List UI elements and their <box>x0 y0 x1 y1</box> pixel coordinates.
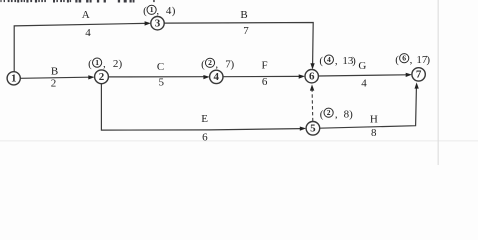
svg-text:5: 5 <box>310 123 316 135</box>
wire 2-4 <box>108 76 204 78</box>
node 7 <box>412 68 425 81</box>
node label (4, 13) at node 6 <box>319 55 356 67</box>
svg-text:H: H <box>370 113 378 125</box>
node label (2, 8) at node 5 <box>320 108 353 120</box>
svg-text:,: , <box>335 55 338 67</box>
svg-text:5: 5 <box>159 77 165 89</box>
svg-text:): ) <box>349 108 353 120</box>
wire 6-7 <box>318 75 406 76</box>
wire 4-6 <box>223 75 300 77</box>
node 2 <box>95 70 109 84</box>
faint table border vertical line right <box>438 0 439 165</box>
svg-text:C: C <box>157 61 164 73</box>
svg-text:G: G <box>358 60 366 72</box>
svg-text:(: ( <box>88 58 92 70</box>
svg-text:B: B <box>240 9 247 21</box>
svg-text:E: E <box>201 113 208 125</box>
arrowhead into node 5 left <box>300 127 306 131</box>
svg-text:): ) <box>172 5 176 17</box>
cut-off text row at top edge <box>0 0 154 3</box>
svg-text:,: , <box>410 54 413 66</box>
svg-text:2: 2 <box>208 58 212 67</box>
svg-text:,: , <box>103 58 106 70</box>
svg-text:(: ( <box>319 55 323 67</box>
svg-text:F: F <box>262 60 268 72</box>
svg-text:1: 1 <box>95 58 99 67</box>
svg-text:(: ( <box>143 5 147 17</box>
svg-text:(: ( <box>201 58 205 70</box>
wire 2-5 (down then right) <box>101 84 300 131</box>
node 1 <box>7 72 20 85</box>
svg-text:4: 4 <box>361 78 367 90</box>
svg-text:1: 1 <box>11 73 17 85</box>
svg-text:): ) <box>426 54 430 66</box>
svg-text:(: ( <box>320 108 324 120</box>
node 3 <box>151 17 164 30</box>
wire 1-3 (up then right) <box>14 23 145 71</box>
wire 3-6 (right then down) <box>164 23 313 65</box>
svg-text:8: 8 <box>371 127 377 139</box>
arrowhead into node 3 <box>145 21 151 25</box>
svg-text:B: B <box>51 65 58 77</box>
node label (6, 17) at node 7 <box>395 54 430 66</box>
svg-text:6: 6 <box>202 131 208 143</box>
arrowhead into node 2 <box>88 75 94 79</box>
svg-text:4: 4 <box>85 27 91 39</box>
arrowhead dummy into node 6 bottom <box>310 84 314 90</box>
wire 1-2 <box>20 77 89 78</box>
arrowhead into node 4 <box>203 75 209 79</box>
svg-text:2: 2 <box>327 108 331 117</box>
svg-text:,: , <box>335 108 338 120</box>
node 4 <box>210 70 223 83</box>
node 6 <box>305 70 318 83</box>
svg-text:): ) <box>118 58 122 70</box>
faint page rule line bottom <box>0 140 478 141</box>
node label (2, 7) at node 4 <box>201 58 234 70</box>
svg-text:6: 6 <box>402 54 406 63</box>
svg-text:6: 6 <box>309 71 315 83</box>
svg-text:3: 3 <box>155 18 161 30</box>
dashed dummy wire 5-6 <box>311 91 314 122</box>
wire 5-7 (right then up) <box>320 88 417 128</box>
arrowhead into node 6 top <box>310 63 314 69</box>
svg-text:2: 2 <box>99 71 105 83</box>
arrowhead into node 7 bottom <box>415 82 419 88</box>
node label (1, 2) at node 2 <box>88 58 122 70</box>
svg-text:7: 7 <box>416 69 422 81</box>
svg-text:,: , <box>156 5 159 17</box>
svg-text:): ) <box>230 58 234 70</box>
svg-text:): ) <box>352 55 356 67</box>
arrowhead into node 7 left <box>406 73 412 77</box>
svg-text:A: A <box>82 9 90 21</box>
node label (1, 4) at node 3 <box>143 5 176 17</box>
svg-text:(: ( <box>395 54 399 66</box>
node 5 <box>306 122 320 136</box>
svg-text:,: , <box>215 58 218 70</box>
svg-text:6: 6 <box>262 76 268 88</box>
arrowhead into node 6 left <box>299 74 305 78</box>
svg-text:4: 4 <box>327 55 331 64</box>
svg-text:7: 7 <box>243 25 249 37</box>
svg-text:1: 1 <box>150 5 154 14</box>
svg-text:4: 4 <box>214 71 220 83</box>
svg-text:2: 2 <box>51 77 57 89</box>
